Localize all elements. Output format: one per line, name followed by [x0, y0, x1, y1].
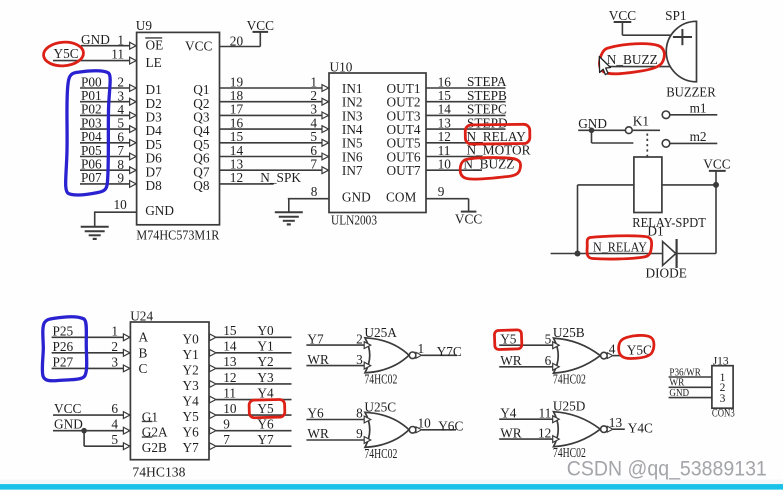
- svg-text:5: 5: [111, 432, 118, 447]
- NOR gate U25A 74HC02: [364, 325, 416, 387]
- wire relay coil right lead to VCC rail: [662, 184, 716, 186]
- svg-text:Y5: Y5: [500, 331, 517, 346]
- svg-text:P27: P27: [53, 354, 74, 369]
- svg-text:SP1: SP1: [665, 8, 686, 23]
- U10 pin 12 OUT5 wire, net N_RELAY: [426, 129, 526, 144]
- svg-text:U25D: U25D: [553, 399, 586, 414]
- svg-text:Y4C: Y4C: [628, 421, 653, 436]
- wire relay coil left lead: [578, 185, 634, 254]
- svg-text:11: 11: [538, 405, 551, 420]
- U9 pin 8 D7 input wire, net P06: [80, 157, 137, 174]
- U24 pin 5 G2B wire branch from GND: [84, 431, 130, 450]
- svg-text:GND: GND: [54, 417, 83, 432]
- svg-text:C: C: [139, 361, 148, 376]
- svg-text:N_RELAY: N_RELAY: [593, 239, 647, 254]
- wire U9 Q7 (pin 13) to U10 IN7 (pin 7): [220, 157, 330, 174]
- svg-text:U10: U10: [330, 60, 353, 75]
- wire U9 Q5 (pin 15) to U10 IN5 (pin 5): [220, 129, 330, 146]
- svg-text:3: 3: [111, 354, 118, 369]
- svg-text:VCC: VCC: [247, 18, 274, 33]
- svg-text:74HC02: 74HC02: [553, 372, 586, 387]
- svg-text:14: 14: [223, 339, 237, 354]
- net GND label (relay switch): [578, 116, 625, 131]
- svg-text:Y3: Y3: [257, 370, 274, 385]
- junction dot GND branch: [81, 428, 87, 434]
- svg-text:10: 10: [438, 157, 452, 172]
- decoder U24 74HC138 body: [130, 309, 209, 480]
- svg-text:Y5: Y5: [257, 401, 274, 416]
- relay coil RELAY-SPDT: [632, 157, 706, 230]
- svg-text:1: 1: [111, 323, 118, 338]
- U9 pin 7 D6 input wire, net P05: [80, 143, 137, 160]
- svg-text:M74HC573M1R: M74HC573M1R: [136, 227, 219, 242]
- contact m1 circle and wire: [662, 100, 717, 118]
- svg-text:LE: LE: [146, 55, 162, 70]
- junction dot on GND wire: [589, 128, 595, 134]
- U24 pin 10 output wire, net Y5: [210, 401, 292, 419]
- svg-text:GND: GND: [669, 387, 689, 399]
- svg-text:ULN2003: ULN2003: [331, 212, 377, 227]
- svg-text:10: 10: [114, 197, 128, 212]
- svg-text:8: 8: [356, 406, 363, 421]
- svg-text:CON3: CON3: [712, 408, 735, 420]
- svg-text:Y7C: Y7C: [437, 344, 462, 359]
- wire GND branch down to second contact: [592, 130, 634, 143]
- svg-text:P07: P07: [81, 170, 102, 185]
- U9 pin 10 GND wire: [95, 197, 137, 227]
- footer light band: [0, 480, 783, 485]
- red annotation circle around Y5C: [43, 41, 85, 67]
- svg-text:U9: U9: [136, 18, 153, 33]
- svg-text:6: 6: [545, 353, 552, 368]
- U9 pin 3 D2 input wire, net P01: [80, 88, 137, 105]
- U24 pin 11 output wire, net Y4: [210, 385, 292, 403]
- svg-text:GND: GND: [342, 189, 371, 204]
- svg-text:A: A: [139, 330, 149, 345]
- wire VCC to buzzer top terminal: [622, 34, 671, 36]
- U10 pin 9 COM wire to VCC: [426, 184, 482, 227]
- svg-text:13: 13: [223, 354, 237, 369]
- VCC power symbol above buzzer: [609, 8, 636, 35]
- svg-text:Y2: Y2: [183, 362, 199, 377]
- cyan bottom bar: [0, 484, 783, 490]
- svg-text:74HC02: 74HC02: [364, 371, 397, 386]
- svg-text:Y5C: Y5C: [54, 46, 79, 61]
- U25D input wire net Y4 (pin 11): [499, 405, 559, 422]
- red annotation box around Y5 (U24): [249, 399, 285, 418]
- wire U9 Q2 (pin 18) to U10 IN2 (pin 2): [220, 88, 330, 105]
- svg-text:3: 3: [720, 393, 726, 405]
- J13 pin 3 wire, net GND: [669, 387, 712, 399]
- svg-text:12: 12: [230, 170, 243, 185]
- U9 pin 5 D4 input wire, net P03: [80, 115, 137, 132]
- svg-text:U25A: U25A: [364, 325, 397, 340]
- svg-text:Y6C: Y6C: [438, 419, 463, 434]
- svg-text:G2B: G2B: [142, 440, 167, 455]
- diode D1: [646, 223, 717, 280]
- U9 pin 6 D5 input wire, net P04: [80, 129, 137, 146]
- svg-text:m2: m2: [690, 129, 707, 144]
- U24 pin 1 input wire, net P25: [52, 323, 131, 340]
- svg-text:K1: K1: [633, 114, 649, 129]
- red annotation circle around Y5C (U25B output): [619, 335, 654, 358]
- U25B input wire net Y5 (pin 5): [499, 331, 559, 348]
- svg-text:VCC: VCC: [185, 39, 212, 54]
- U25B input wire net WR (pin 6): [499, 353, 559, 370]
- svg-text:3: 3: [356, 352, 363, 367]
- svg-text:74HC138: 74HC138: [132, 464, 185, 479]
- svg-text:4: 4: [111, 417, 118, 432]
- svg-text:4: 4: [609, 341, 616, 356]
- wire net N_RELAY: [551, 239, 663, 254]
- U25A input wire net WR (pin 3): [306, 352, 370, 369]
- U25A output wire net Y7C (pin 1): [416, 341, 462, 359]
- svg-text:12: 12: [223, 370, 236, 385]
- svg-text:P25: P25: [53, 323, 74, 338]
- svg-text:VCC: VCC: [54, 401, 81, 416]
- U9 pin 12 Q8 wire, net N_SPK: [220, 170, 302, 185]
- U25C input wire net WR (pin 9): [306, 426, 370, 443]
- ground symbol below U10: [275, 212, 303, 224]
- U25C output wire net Y6C (pin 10): [416, 416, 463, 434]
- svg-text:9: 9: [223, 416, 230, 431]
- svg-text:Y7: Y7: [307, 331, 324, 346]
- NOR gate U25B 74HC02: [553, 325, 607, 387]
- svg-text:7: 7: [310, 157, 317, 172]
- relay switch blade wire: [632, 129, 660, 131]
- U9 pin 9 D8 input wire, net P07: [80, 170, 137, 187]
- red annotation loop around N_BUZZ (buzzer): [599, 44, 664, 74]
- U24 pin 7 output wire, net Y7: [210, 432, 292, 450]
- red annotation box around N_RELAY (relay): [587, 236, 652, 259]
- buzzer SP1 symbol: [665, 8, 716, 100]
- svg-text:U24: U24: [130, 309, 153, 324]
- U25A input wire net Y7 (pin 2): [306, 331, 370, 348]
- svg-text:Y5: Y5: [183, 409, 200, 424]
- blue annotation brace around P00-P07: [66, 71, 111, 195]
- wire U9 Q3 (pin 17) to U10 IN3 (pin 3): [220, 102, 330, 119]
- blue annotation brace around P25-P27: [42, 317, 86, 381]
- svg-text:DIODE: DIODE: [646, 266, 687, 281]
- U9 pin 2 D1 input wire, net P00: [80, 74, 137, 91]
- svg-text:WR: WR: [500, 353, 522, 368]
- U10 pin 14 OUT3 wire, net STEPC: [426, 102, 507, 117]
- U24 pin 2 input wire, net P26: [52, 339, 131, 356]
- VCC power symbol (relay): [703, 156, 730, 253]
- connector J13 CON3 body: [712, 356, 735, 420]
- svg-text:N_BUZZ: N_BUZZ: [607, 52, 658, 67]
- svg-text:13: 13: [609, 415, 623, 430]
- U25B output wire net Y5C (pin 4): [607, 341, 652, 358]
- red annotation box around Y5 (U25B input): [494, 330, 522, 350]
- svg-text:N_SPK: N_SPK: [260, 170, 301, 185]
- U24 pin 6 G1 wire, net VCC: [53, 401, 130, 418]
- svg-text:2: 2: [356, 331, 363, 346]
- U10 pin 8 GND wire: [288, 184, 329, 212]
- svg-text:Y0: Y0: [257, 323, 274, 338]
- U10 pin 10 OUT7 wire, net N_BUZZ: [426, 156, 514, 171]
- U24 pin 12 output wire, net Y3: [210, 370, 292, 388]
- svg-text:Y7: Y7: [257, 432, 274, 447]
- U10 pin 16 OUT1 wire, net STEPA: [426, 74, 507, 89]
- svg-text:Y1: Y1: [257, 339, 273, 354]
- svg-text:GND: GND: [145, 203, 174, 218]
- U10 pin 11 OUT6 wire, net N_MOTOR: [426, 143, 531, 158]
- svg-text:20: 20: [230, 33, 244, 48]
- svg-text:WR: WR: [500, 425, 522, 440]
- svg-text:1: 1: [117, 33, 124, 48]
- svg-text:Y6: Y6: [307, 406, 324, 421]
- svg-text:WR: WR: [307, 352, 329, 367]
- U9 pin 20 VCC wire and power symbol: [220, 18, 275, 48]
- dashed actuator link K1: [646, 134, 648, 157]
- svg-text:P26: P26: [53, 339, 74, 354]
- U24 pin 13 output wire, net Y2: [210, 354, 292, 372]
- svg-text:2: 2: [111, 339, 118, 354]
- contact m2 circle and wire: [662, 129, 717, 147]
- svg-text:7: 7: [223, 432, 230, 447]
- U10 pin 13 OUT4 wire, net STEPD: [426, 115, 508, 130]
- svg-text:11: 11: [111, 46, 124, 61]
- svg-text:D1: D1: [647, 223, 663, 238]
- svg-text:Y3: Y3: [183, 378, 200, 393]
- svg-text:VCC: VCC: [455, 212, 482, 227]
- relay switch K1 pole circle: [625, 127, 632, 134]
- svg-text:Y1: Y1: [183, 347, 199, 362]
- U24 pin 15 output wire, net Y0: [210, 323, 292, 341]
- svg-text:12: 12: [538, 425, 551, 440]
- svg-text:Q8: Q8: [193, 178, 210, 193]
- wire U9 Q4 (pin 16) to U10 IN4 (pin 4): [220, 115, 330, 132]
- U24 pin 3 input wire, net P27: [52, 354, 131, 371]
- red annotation box around N_BUZZ (U10): [460, 158, 520, 180]
- NOR gate U25D 74HC02: [553, 399, 607, 461]
- U10 pin 15 OUT2 wire, net STEPB: [426, 88, 507, 103]
- svg-text:CSDN @qq_53889131: CSDN @qq_53889131: [567, 458, 767, 481]
- svg-text:Y4: Y4: [257, 385, 274, 400]
- svg-text:Y0: Y0: [183, 331, 200, 346]
- svg-text:RELAY-SPDT: RELAY-SPDT: [632, 215, 706, 230]
- svg-text:1: 1: [418, 341, 425, 356]
- svg-text:5: 5: [545, 331, 552, 346]
- red annotation box around N_RELAY (U10): [465, 124, 530, 144]
- svg-text:U25C: U25C: [364, 399, 396, 414]
- svg-text:WR: WR: [307, 426, 329, 441]
- latch U9 M74HC573M1R body: [136, 18, 220, 242]
- svg-text:9: 9: [438, 184, 445, 199]
- wire U9 Q1 (pin 19) to U10 IN1 (pin 1): [220, 74, 330, 91]
- wire net N_BUZZ to buzzer bottom terminal: [606, 52, 671, 67]
- driver U10 ULN2003 body: [329, 60, 426, 228]
- svg-text:J13: J13: [713, 356, 729, 368]
- svg-text:OUT7: OUT7: [387, 163, 421, 178]
- svg-text:15: 15: [223, 323, 237, 338]
- J13 pin 1 wire, net P36/WR: [669, 366, 712, 378]
- svg-text:10: 10: [418, 416, 432, 431]
- svg-text:6: 6: [111, 401, 118, 416]
- U25C input wire net Y6 (pin 8): [306, 406, 370, 423]
- U9 pin 1 OE input wire, net GND: [81, 32, 137, 49]
- svg-text:IN7: IN7: [342, 163, 363, 178]
- U24 pin 14 output wire, net Y1: [210, 339, 292, 357]
- svg-text:11: 11: [223, 385, 236, 400]
- junction dot coil/VCC: [713, 182, 719, 188]
- junction dot N_RELAY: [575, 251, 581, 257]
- ground symbol below U9: [81, 227, 109, 239]
- svg-text:COM: COM: [386, 189, 416, 204]
- svg-text:Y4: Y4: [500, 405, 517, 420]
- svg-text:9: 9: [117, 171, 124, 186]
- svg-text:8: 8: [311, 184, 318, 199]
- svg-text:D8: D8: [146, 178, 163, 193]
- U25D output wire net Y4C (pin 13): [607, 415, 653, 436]
- svg-text:VCC: VCC: [703, 156, 730, 171]
- U24 pin 9 output wire, net Y6: [210, 416, 292, 434]
- svg-text:OE: OE: [146, 37, 164, 52]
- wire U9 Q6 (pin 14) to U10 IN6 (pin 6): [220, 143, 330, 160]
- svg-text:9: 9: [356, 426, 363, 441]
- U24 pin 4 G2A wire, net GND: [53, 417, 130, 434]
- U9 pin 4 D3 input wire, net P02: [80, 102, 137, 119]
- svg-text:m1: m1: [690, 100, 707, 115]
- svg-text:10: 10: [223, 401, 237, 416]
- U9 pin 11 LE input wire, net Y5C: [53, 46, 137, 64]
- svg-text:Y7: Y7: [183, 440, 200, 455]
- NOR gate U25C 74HC02: [364, 399, 416, 461]
- J13 pin 2 wire, net WR: [669, 377, 712, 389]
- svg-text:Y4: Y4: [183, 394, 200, 409]
- svg-text:VCC: VCC: [609, 8, 636, 23]
- svg-text:BUZZER: BUZZER: [666, 84, 716, 99]
- svg-text:U25B: U25B: [553, 325, 585, 340]
- svg-text:B: B: [139, 345, 148, 360]
- U25D input wire net WR (pin 12): [499, 425, 559, 442]
- svg-text:74HC02: 74HC02: [364, 446, 397, 461]
- svg-text:GND: GND: [81, 32, 110, 47]
- mouse cursor: [599, 57, 610, 75]
- svg-text:Y6: Y6: [183, 425, 200, 440]
- svg-text:Y2: Y2: [257, 354, 273, 369]
